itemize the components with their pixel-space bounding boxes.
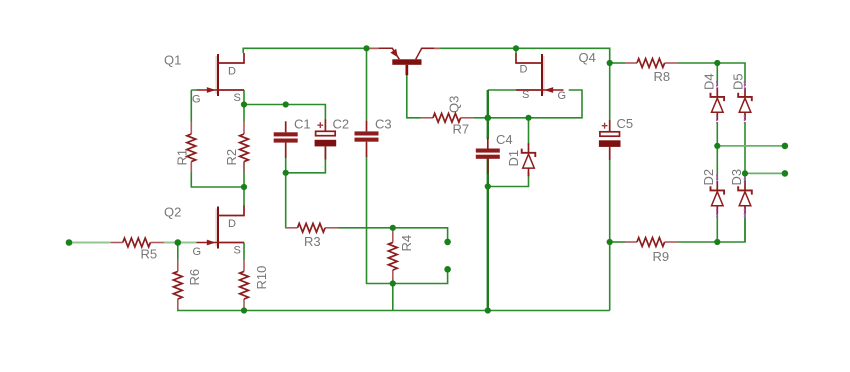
svg-text:D: D — [228, 66, 236, 78]
wire D3 anode down — [744, 214, 746, 242]
junction C5 R9 rail — [607, 239, 613, 245]
wire D3 cathode link — [744, 173, 746, 182]
junction D1 top — [525, 115, 531, 121]
svg-text:G: G — [558, 90, 567, 102]
wire mid node to output 1 — [717, 145, 785, 147]
svg-text:R10: R10 — [254, 266, 269, 290]
wire C3 bottom to R4 bottom — [367, 156, 393, 284]
transistor Q2 (FET) — [164, 205, 244, 259]
wire R4 bottom to terminal — [393, 272, 448, 283]
svg-text:D5: D5 — [731, 73, 746, 90]
capacitor C1 — [274, 117, 311, 158]
svg-text:R8: R8 — [654, 69, 671, 84]
wire R4 node to bottom rail — [392, 278, 394, 311]
svg-text:D2: D2 — [701, 169, 716, 186]
transistor Q1 (FET) — [164, 53, 244, 106]
svg-text:G: G — [193, 246, 202, 258]
wire Q3 base to R7 — [407, 75, 421, 118]
wire node to D1 — [528, 118, 530, 145]
wire to C5 — [609, 63, 611, 121]
svg-text:G: G — [192, 94, 201, 106]
junction R3 R4 — [390, 225, 396, 231]
junction R8 / C5 — [607, 60, 613, 66]
junction bottom rail / C4 branch — [485, 307, 491, 313]
capacitor C5 (polarized) — [599, 116, 633, 160]
svg-text:R7: R7 — [453, 122, 470, 137]
wire R3 to R4 node — [338, 227, 392, 229]
junction R10 bottom rail — [241, 307, 247, 313]
wire C4 node to bottom rail — [487, 187, 489, 311]
svg-text:D: D — [228, 218, 236, 230]
svg-text:R4: R4 — [399, 235, 414, 252]
capacitor C3 — [355, 117, 392, 157]
svg-text:Q3: Q3 — [447, 96, 462, 113]
diode D4 (zener) — [702, 73, 725, 124]
svg-text:D: D — [520, 64, 528, 76]
svg-text:R2: R2 — [224, 149, 239, 166]
wire mid node to D2 — [716, 146, 718, 181]
diode D1 (zener) — [506, 143, 535, 176]
svg-text:D1: D1 — [506, 150, 521, 167]
junction R4 bottom — [390, 280, 396, 286]
junction C1 bottom — [283, 170, 289, 176]
wire to R8 — [610, 62, 625, 64]
svg-text:R5: R5 — [141, 247, 158, 262]
transistor Q3 (BJT) — [368, 48, 462, 113]
svg-text:D3: D3 — [729, 169, 744, 186]
wire R10 to bottom rail — [243, 308, 245, 311]
terminal output upper — [782, 143, 789, 150]
wire C2 bottom to C1 — [286, 147, 326, 173]
wire Q1 gate to R1 — [191, 90, 196, 122]
diode D2 (zener) — [701, 169, 724, 218]
wire R5 to gate node — [164, 242, 197, 244]
wire Q1 source to R2 — [243, 90, 245, 122]
junction R7 C4 node — [485, 115, 492, 122]
terminal R4 tap upper — [444, 239, 451, 246]
resistor R5 — [110, 238, 164, 261]
junction C1 top — [283, 101, 289, 107]
wire D2 anode down — [716, 214, 718, 242]
resistor R2 — [224, 122, 249, 173]
junction top rail / C3 — [363, 45, 369, 51]
wire node to C4 — [487, 118, 489, 139]
svg-text:D4: D4 — [702, 73, 717, 90]
pin number marks D4 — [716, 81, 718, 124]
svg-text:R3: R3 — [304, 234, 321, 249]
wire D5 anode down — [744, 122, 746, 173]
resistor R10 — [240, 259, 269, 310]
junction Q1 source node — [241, 101, 247, 107]
wire D4 anode to mid node — [716, 122, 718, 146]
wire Q2 source to R10 — [243, 243, 245, 260]
wire C5 bottom to R9 node — [609, 160, 611, 242]
top rail wire right — [434, 48, 610, 63]
wire Q4 gate loop — [488, 90, 582, 118]
svg-text:R6: R6 — [187, 269, 202, 286]
wire Q4 source link — [488, 89, 516, 91]
svg-text:S: S — [522, 89, 529, 101]
resistor R4 — [388, 230, 414, 281]
capacitor C4 — [476, 132, 513, 174]
svg-text:R9: R9 — [653, 249, 670, 264]
wire C4 bottom — [487, 158, 489, 187]
junction D4 D2 output node — [714, 143, 720, 149]
svg-text:Q2: Q2 — [164, 205, 181, 220]
wire C1 node down to R3 — [285, 173, 287, 228]
resistor R1 — [174, 122, 195, 173]
wire R2 bottom to Q2 drain — [243, 162, 245, 206]
wire R4 top to terminal — [393, 228, 448, 239]
capacitor C2 (polarized) — [315, 117, 350, 160]
wire Q4 drain stub — [515, 48, 517, 53]
svg-text:C1: C1 — [294, 117, 311, 132]
svg-text:Q1: Q1 — [164, 53, 181, 68]
resistor R6 — [173, 259, 202, 310]
pin number marks D2 — [716, 174, 718, 217]
wire source node to C1 C2 — [244, 105, 325, 121]
svg-text:S: S — [234, 92, 241, 104]
wire to output 2 — [745, 172, 785, 174]
pin number marks D5 — [743, 81, 745, 124]
wire R7 to node — [474, 117, 488, 119]
junction D5 D3 output node — [742, 170, 748, 176]
wire node to D3 anode — [717, 218, 745, 242]
wire to R9 — [610, 241, 625, 243]
terminal output lower — [782, 170, 789, 177]
wire D1 bottom to C4 node — [488, 172, 529, 187]
junction top rail / Q4 drain — [513, 45, 519, 51]
wire R9 to D2 node — [678, 241, 717, 243]
svg-text:C4: C4 — [496, 132, 513, 147]
bottom rail wire — [178, 308, 610, 311]
diode D3 (zener) — [729, 169, 752, 218]
wire bottom rail riser — [609, 242, 611, 311]
transistor Q4 (FET) — [516, 50, 596, 102]
svg-text:C3: C3 — [375, 117, 392, 132]
wire input to R5 — [69, 242, 110, 244]
resistor R7 — [421, 113, 475, 136]
wire D4 cathode — [716, 63, 718, 86]
resistor R3 — [285, 223, 339, 249]
terminal input — [66, 239, 73, 246]
wire R1 bottom to node — [191, 172, 244, 188]
svg-text:R1: R1 — [174, 149, 189, 166]
junction R5 R6 gate node — [175, 239, 182, 246]
svg-text:C5: C5 — [617, 116, 634, 131]
wire C1 bottom — [285, 157, 287, 173]
wire Q4 source drop — [487, 90, 489, 118]
resistor R8 — [625, 59, 679, 84]
wire R8 to D4 D5 — [678, 63, 745, 86]
pin number marks D3 — [743, 174, 745, 217]
junction R9 D2 — [714, 239, 720, 245]
svg-text:S: S — [234, 245, 241, 257]
wire node to R6 — [177, 243, 179, 260]
junction R1 R2 / Q2 drain — [241, 184, 247, 190]
resistor R9 — [625, 238, 679, 264]
junction C4 D1 bottom — [485, 183, 491, 189]
wire C3 drop — [366, 48, 368, 120]
svg-text:C2: C2 — [333, 117, 350, 132]
top rail wire left — [243, 48, 380, 53]
diode D5 (zener) — [731, 73, 752, 124]
svg-text:Q4: Q4 — [579, 50, 596, 65]
terminal R4 tap lower — [444, 266, 451, 273]
junction R8 / D4 — [714, 60, 720, 66]
